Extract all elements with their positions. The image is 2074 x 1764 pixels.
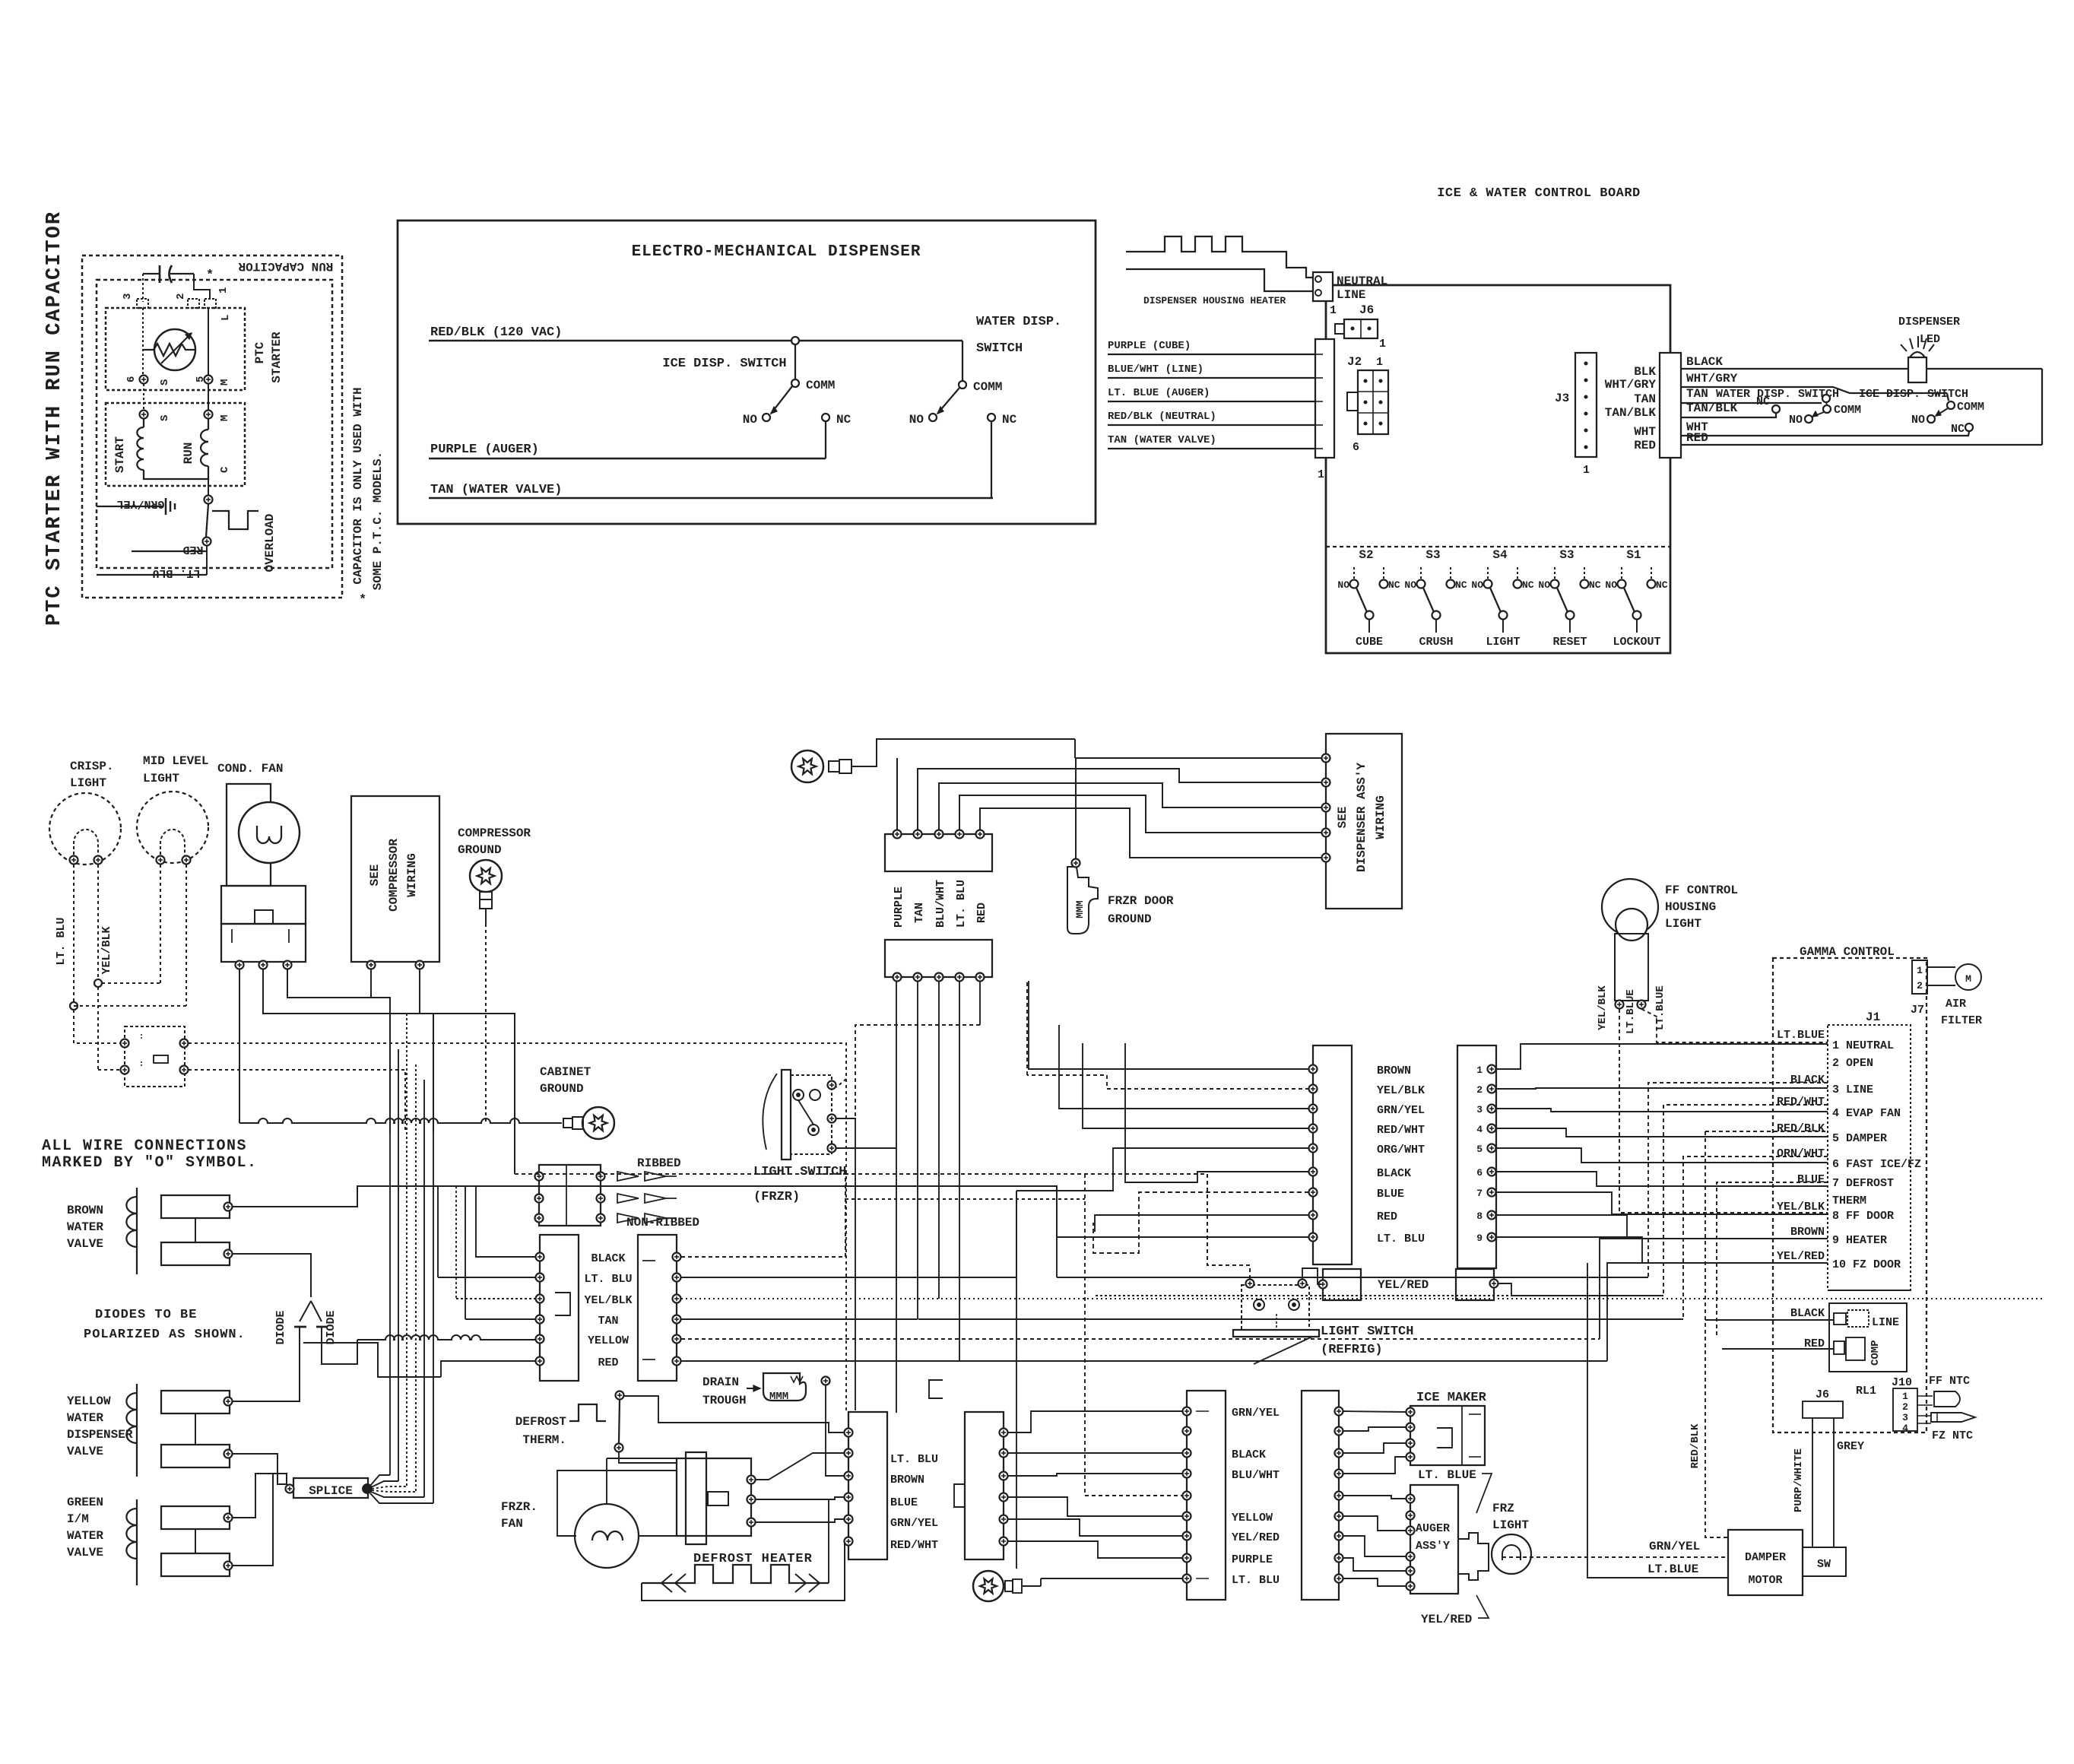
wire defrost therm bottom xyxy=(619,1452,677,1463)
connector pin BLACK xyxy=(536,1253,544,1261)
svg-text:NO: NO xyxy=(1337,579,1349,591)
svg-text:YEL/BLK: YEL/BLK xyxy=(584,1294,632,1307)
wire yel/blk from light xyxy=(1619,1009,1828,1213)
svg-text:COMM: COMM xyxy=(806,379,835,392)
wire refrig switch to yel/red xyxy=(1302,1268,1321,1284)
svg-text:S4: S4 xyxy=(1492,548,1508,562)
svg-text:YEL/RED: YEL/RED xyxy=(1777,1250,1825,1263)
mid level light bulb xyxy=(137,792,208,863)
svg-text:PURPLE: PURPLE xyxy=(1232,1553,1273,1566)
connector C pin BLUE xyxy=(1309,1188,1318,1197)
svg-text:WIRING: WIRING xyxy=(405,853,419,897)
svg-text:NC: NC xyxy=(1656,579,1668,591)
svg-text:LT. BLU: LT. BLU xyxy=(152,566,200,579)
wire LT. BLU xyxy=(97,574,207,576)
svg-text:BROWN: BROWN xyxy=(1790,1226,1825,1239)
svg-text:FF NTC: FF NTC xyxy=(1929,1375,1970,1388)
evap fan terminals xyxy=(747,1476,756,1484)
svg-text:MID LEVEL: MID LEVEL xyxy=(143,754,208,768)
svg-text:PTC STARTER WITH RUN CAPACITOR: PTC STARTER WITH RUN CAPACITOR xyxy=(43,211,66,626)
dispenser assy terminals xyxy=(1322,754,1330,763)
svg-text:RL1: RL1 xyxy=(1856,1385,1876,1398)
svg-text:FAN: FAN xyxy=(501,1517,523,1531)
compressor box terminals xyxy=(367,961,376,969)
svg-text:GREEN: GREEN xyxy=(67,1496,103,1509)
svg-text:NC: NC xyxy=(1951,423,1965,436)
refrigerator light switch xyxy=(1233,1330,1319,1337)
svg-text:NO: NO xyxy=(1404,579,1416,591)
svg-text:SEE: SEE xyxy=(368,865,382,887)
svg-text:MMM: MMM xyxy=(769,1391,788,1403)
svg-text:COMM: COMM xyxy=(973,380,1002,394)
svg-text:POLARIZED AS SHOWN.: POLARIZED AS SHOWN. xyxy=(84,1328,246,1342)
connector C pin LT. BLU xyxy=(1309,1233,1318,1242)
crisp light bulb xyxy=(49,793,121,865)
pin 2 xyxy=(188,299,199,308)
svg-text:LIGHT SWITCH: LIGHT SWITCH xyxy=(1321,1325,1413,1339)
svg-text:LIGHT SWITCH: LIGHT SWITCH xyxy=(753,1165,846,1179)
svg-text:WHT: WHT xyxy=(1686,420,1708,434)
svg-text:GROUND: GROUND xyxy=(540,1082,584,1096)
svg-text:(FRZR): (FRZR) xyxy=(753,1190,800,1204)
wire LT. BLU from connector xyxy=(681,1191,1016,1277)
dispenser wires staircase xyxy=(918,769,1322,830)
svg-text:NO: NO xyxy=(909,413,924,427)
svg-text:ELECTRO-MECHANICAL DISPENSER: ELECTRO-MECHANICAL DISPENSER xyxy=(632,243,921,261)
connector D pin 3 xyxy=(1488,1105,1496,1113)
drain trough heater terminal xyxy=(822,1377,830,1385)
connector D pin 2 xyxy=(1488,1085,1496,1093)
connector C pin RED/WHT xyxy=(1309,1125,1318,1133)
ff light base xyxy=(1615,934,1648,1001)
svg-text:ICE DISP. SWITCH: ICE DISP. SWITCH xyxy=(1859,388,1968,401)
svg-text:COMM: COMM xyxy=(1957,401,1984,414)
svg-text:1 NEUTRAL: 1 NEUTRAL xyxy=(1832,1039,1894,1052)
wire yellow valve lower to splice xyxy=(233,1454,287,1484)
svg-text:M: M xyxy=(219,379,231,385)
svg-text:ASS'Y: ASS'Y xyxy=(1416,1540,1450,1553)
drain trough xyxy=(763,1373,806,1401)
connector C pin BLACK xyxy=(1309,1168,1318,1176)
svg-text:9: 9 xyxy=(1476,1233,1483,1244)
ribbed connector block xyxy=(539,1165,601,1226)
wire defrost therm top xyxy=(623,1396,844,1432)
svg-text:GROUND: GROUND xyxy=(458,843,502,857)
svg-text:TAN/BLK: TAN/BLK xyxy=(1605,406,1657,420)
svg-text:NC: NC xyxy=(1756,395,1770,408)
svg-text:FRZR DOOR: FRZR DOOR xyxy=(1108,894,1174,908)
wire red bus xyxy=(855,1025,980,1118)
svg-text:VALVE: VALVE xyxy=(67,1237,103,1251)
frzr door ground clip xyxy=(1067,867,1098,934)
svg-text:NC: NC xyxy=(1455,579,1467,591)
cond fan motor xyxy=(239,802,300,863)
evap harness connector L xyxy=(848,1412,887,1559)
svg-text:THERM: THERM xyxy=(1832,1195,1866,1207)
svg-text:RED/BLK (NEUTRAL): RED/BLK (NEUTRAL) xyxy=(1108,411,1216,423)
svg-text:BLACK: BLACK xyxy=(1790,1074,1825,1087)
svg-text:LT. BLU: LT. BLU xyxy=(955,880,968,928)
wire lt blue to gamma pin1 xyxy=(1641,1009,1828,1042)
evap connector pin xyxy=(845,1537,853,1546)
yellow water valve xyxy=(136,1384,138,1477)
wire motor C to overload xyxy=(208,479,209,495)
compressor ground lug xyxy=(470,860,502,892)
PTC starter outer dashed box xyxy=(82,255,342,598)
wire RED from connector xyxy=(681,1360,1607,1362)
svg-text:FILTER: FILTER xyxy=(1941,1014,1982,1027)
evap fan shaft xyxy=(708,1492,728,1505)
freezer fan motor xyxy=(575,1504,639,1568)
splice xyxy=(293,1478,368,1498)
svg-text:1: 1 xyxy=(217,287,230,293)
overload bimetal element xyxy=(212,511,258,529)
start winding xyxy=(143,418,144,427)
wire overload to LT. BLU xyxy=(206,546,208,575)
svg-text:J1: J1 xyxy=(1866,1010,1880,1024)
comp plug xyxy=(1834,1341,1844,1354)
svg-text:BROWN: BROWN xyxy=(890,1474,924,1486)
svg-text:6: 6 xyxy=(125,376,138,382)
dispenser connector B xyxy=(885,940,992,977)
svg-text:J2: J2 xyxy=(1347,355,1362,369)
svg-text:BLACK: BLACK xyxy=(1790,1307,1825,1320)
svg-text:LIGHT: LIGHT xyxy=(1492,1518,1529,1532)
harness connector E xyxy=(540,1235,579,1381)
svg-text:3: 3 xyxy=(1902,1412,1908,1423)
svg-text:FF CONTROL: FF CONTROL xyxy=(1665,884,1738,897)
defrost heater element xyxy=(642,1565,829,1583)
wire PTC S to motor S xyxy=(143,384,144,411)
auger assy xyxy=(1410,1485,1458,1594)
svg-text:RED: RED xyxy=(1377,1210,1397,1223)
overload lower terminal xyxy=(203,538,211,546)
wire to lamp socket xyxy=(74,1010,120,1043)
wire pin2 to M terminal xyxy=(208,308,209,376)
svg-text:FZ NTC: FZ NTC xyxy=(1932,1429,1973,1442)
svg-text:RED: RED xyxy=(598,1356,618,1369)
wire crisp left lead LT. BLU xyxy=(73,865,75,1002)
compressor motor box xyxy=(106,403,245,486)
svg-text:NC: NC xyxy=(1388,579,1400,591)
evap connector pin xyxy=(845,1429,853,1437)
connector G/H pin xyxy=(1183,1449,1191,1458)
svg-text:RED: RED xyxy=(182,543,203,556)
wire bundle verticals to splice xyxy=(389,998,391,1475)
svg-text:4: 4 xyxy=(1902,1423,1908,1434)
wire frzr switch bottom xyxy=(836,1147,896,1149)
svg-text:3 LINE: 3 LINE xyxy=(1832,1083,1873,1096)
motor terminal M xyxy=(205,411,213,419)
connector C pin BROWN xyxy=(1309,1065,1318,1074)
svg-text:NO: NO xyxy=(1471,579,1483,591)
wire purple pin drop xyxy=(896,758,898,830)
svg-text:LT. BLUE: LT. BLUE xyxy=(1418,1468,1476,1482)
freezer light xyxy=(1458,1533,1489,1580)
overload protector terminal xyxy=(205,496,213,504)
svg-text:DAMPER: DAMPER xyxy=(1745,1551,1786,1564)
connector D pin 8 xyxy=(1488,1211,1496,1220)
wires H to auger xyxy=(1343,1496,1406,1499)
wire brown valve lower to diodes xyxy=(233,1254,311,1297)
svg-text:VALVE: VALVE xyxy=(67,1445,103,1458)
svg-text:6 FAST ICE/FZ: 6 FAST ICE/FZ xyxy=(1832,1158,1921,1171)
svg-text:COMP: COMP xyxy=(1869,1340,1882,1366)
wire pin3 to S terminal xyxy=(142,308,144,376)
harness connector C xyxy=(1313,1045,1352,1264)
harness D to gamma J1 rows xyxy=(1496,1044,1828,1069)
svg-text:LIGHT: LIGHT xyxy=(143,772,179,785)
wire compressor to bundle xyxy=(371,998,390,1133)
svg-text:OVERLOAD: OVERLOAD xyxy=(263,514,277,573)
svg-text:GRN/YEL: GRN/YEL xyxy=(1232,1407,1280,1420)
svg-text:RUN: RUN xyxy=(182,443,195,465)
svg-text:TROUGH: TROUGH xyxy=(702,1394,747,1407)
connector G/H pin xyxy=(1183,1512,1191,1521)
svg-text:J3: J3 xyxy=(1555,392,1569,405)
connector G/H pin xyxy=(1183,1427,1191,1436)
svg-text:NO: NO xyxy=(1911,414,1925,427)
svg-text:VALVE: VALVE xyxy=(67,1546,103,1559)
svg-text:SPLICE: SPLICE xyxy=(309,1484,353,1498)
svg-text:DISPENSER ASS'Y: DISPENSER ASS'Y xyxy=(1355,763,1368,872)
wire green valve lower xyxy=(233,1474,273,1566)
svg-text:8: 8 xyxy=(1476,1210,1483,1222)
wires J6 to SW xyxy=(1812,1418,1813,1547)
ground GRN/YEL xyxy=(97,506,163,507)
wire yellow valve top xyxy=(233,1401,300,1402)
svg-text:FRZ: FRZ xyxy=(1492,1502,1514,1515)
PTC resistor R1 xyxy=(154,329,195,370)
svg-text:SEE: SEE xyxy=(1336,807,1349,829)
svg-text:DRAIN: DRAIN xyxy=(702,1375,739,1389)
svg-text:BLACK: BLACK xyxy=(1686,355,1723,369)
harness connector D xyxy=(1457,1045,1496,1268)
svg-text:AIR: AIR xyxy=(1946,998,1966,1010)
wire socket bus lower vertical xyxy=(845,1079,847,1410)
connector G/H pin xyxy=(1183,1575,1191,1583)
svg-text:CABINET: CABINET xyxy=(540,1065,591,1079)
svg-text:BROWN: BROWN xyxy=(67,1204,103,1217)
svg-text:SW: SW xyxy=(1817,1558,1831,1571)
right loop edge xyxy=(2041,369,2043,445)
connector C pin RED xyxy=(1309,1211,1318,1220)
svg-text:2: 2 xyxy=(1917,980,1923,991)
damper motor xyxy=(1728,1530,1803,1595)
connector pin YELLOW xyxy=(536,1335,544,1344)
svg-text:YEL/RED: YEL/RED xyxy=(1378,1278,1429,1292)
svg-text:ORG/WHT: ORG/WHT xyxy=(1377,1144,1425,1156)
svg-text:LT. BLUE (AUGER): LT. BLUE (AUGER) xyxy=(1108,387,1210,399)
neutral/line connector xyxy=(1313,272,1333,301)
svg-text:3: 3 xyxy=(122,293,134,300)
cabinet harness connector G xyxy=(1187,1391,1226,1600)
svg-text:(REFRIG): (REFRIG) xyxy=(1321,1343,1383,1357)
svg-text:BLU/WHT: BLU/WHT xyxy=(934,880,947,928)
svg-text:MMM: MMM xyxy=(1074,900,1086,918)
svg-text:GROUND: GROUND xyxy=(1108,912,1152,926)
svg-text:ORN/WHT: ORN/WHT xyxy=(1777,1147,1825,1160)
wire splice bundle to connector E xyxy=(476,1186,535,1257)
svg-text:LIGHT: LIGHT xyxy=(70,776,106,790)
svg-text:GREY: GREY xyxy=(1837,1440,1864,1453)
svg-text:1: 1 xyxy=(1376,356,1383,369)
svg-text:GRN/YEL: GRN/YEL xyxy=(1649,1540,1700,1553)
electro-mechanical dispenser box xyxy=(398,220,1096,524)
svg-text:J10: J10 xyxy=(1892,1376,1912,1389)
cond fan terminals xyxy=(236,961,244,969)
board output connector xyxy=(1660,353,1681,458)
svg-text:ICE & WATER CONTROL BOARD: ICE & WATER CONTROL BOARD xyxy=(1437,186,1641,201)
wires into connector C xyxy=(1029,981,1309,1069)
svg-text:YEL/BLK: YEL/BLK xyxy=(1777,1201,1825,1214)
cabinet ground lug xyxy=(563,1118,572,1128)
lamp socket interlock xyxy=(125,1026,185,1087)
svg-text:COMM: COMM xyxy=(1834,404,1861,417)
svg-text:S: S xyxy=(159,379,171,385)
svg-text:GRN/YEL: GRN/YEL xyxy=(890,1517,938,1530)
svg-text:ALL WIRE CONNECTIONS: ALL WIRE CONNECTIONS xyxy=(42,1137,247,1155)
svg-text:2: 2 xyxy=(1476,1084,1483,1096)
svg-text:BLACK: BLACK xyxy=(1232,1448,1266,1461)
svg-text:LT.BLUE: LT.BLUE xyxy=(1625,989,1637,1034)
svg-text:LT.BLUE: LT.BLUE xyxy=(1647,1563,1698,1576)
svg-text:ICE DISP. SWITCH: ICE DISP. SWITCH xyxy=(662,357,786,371)
evap connector pin xyxy=(845,1493,853,1502)
svg-text:WATER: WATER xyxy=(67,1529,103,1543)
svg-text:LT.BLUE: LT.BLUE xyxy=(1777,1029,1825,1042)
svg-text:WATER DISP.: WATER DISP. xyxy=(976,315,1061,329)
connector J1 board-left xyxy=(1315,339,1334,458)
svg-text:NC: NC xyxy=(1002,413,1017,427)
svg-text:RED/BLK (120 VAC): RED/BLK (120 VAC) xyxy=(430,325,562,340)
svg-text:NC: NC xyxy=(1522,579,1534,591)
svg-text:LIGHT: LIGHT xyxy=(1486,636,1520,649)
dispenser connector A xyxy=(885,834,992,871)
svg-text:6: 6 xyxy=(1353,441,1359,454)
svg-text:2: 2 xyxy=(1902,1401,1908,1413)
terminal 5/M on PTC box xyxy=(205,376,213,384)
svg-text:BLUE: BLUE xyxy=(890,1496,918,1509)
ground bus to cabinet ground xyxy=(239,1118,562,1123)
wire RED xyxy=(132,550,207,552)
wire bus to connector G upper xyxy=(845,1198,1085,1200)
svg-text:NC: NC xyxy=(1589,579,1601,591)
svg-text:YEL/BLK: YEL/BLK xyxy=(100,926,113,974)
svg-text:DEFROST: DEFROST xyxy=(515,1415,567,1429)
yel/red connector half A xyxy=(1323,1269,1361,1300)
svg-text:PURPLE: PURPLE xyxy=(893,887,905,928)
svg-text:LT. BLU: LT. BLU xyxy=(890,1453,938,1466)
wires H to ice maker xyxy=(1343,1411,1406,1412)
svg-text:J6: J6 xyxy=(1359,303,1374,317)
svg-text:COND. FAN: COND. FAN xyxy=(217,762,283,776)
svg-text:NEUTRAL: NEUTRAL xyxy=(1337,274,1387,288)
wire water NC to tan xyxy=(991,421,992,498)
svg-text:M: M xyxy=(1965,973,1971,985)
svg-text:M: M xyxy=(219,415,231,421)
air filter motor xyxy=(1955,964,1981,990)
connector C pin ORG/WHT xyxy=(1309,1144,1318,1153)
wire BLACK from connector to refrig switch xyxy=(681,1174,1250,1280)
svg-text:S: S xyxy=(159,415,171,421)
svg-text:9 HEATER: 9 HEATER xyxy=(1832,1234,1887,1247)
svg-text:RIBBED: RIBBED xyxy=(637,1156,681,1170)
svg-text:PURP/WHITE: PURP/WHITE xyxy=(1793,1448,1805,1512)
svg-text:NO: NO xyxy=(1789,414,1803,427)
wire socket to freezer light switch xyxy=(189,1043,846,1087)
svg-text:GRN/YEL: GRN/YEL xyxy=(116,497,164,510)
svg-text:YELLOW: YELLOW xyxy=(1232,1512,1273,1524)
svg-text:PTC: PTC xyxy=(253,341,267,363)
svg-text:L: L xyxy=(220,315,232,321)
svg-text:TAN: TAN xyxy=(1686,387,1708,401)
wire cond fan 1 to ground bus xyxy=(239,969,240,1123)
connector pin RED xyxy=(536,1357,544,1366)
svg-text:GRN/YEL: GRN/YEL xyxy=(1377,1104,1425,1117)
wire YEL/BLK from connector xyxy=(681,1298,2045,1299)
terminal 6/S on PTC box xyxy=(140,376,148,384)
defrost heater leads xyxy=(642,1541,848,1601)
svg-text:GAMMA CONTROL: GAMMA CONTROL xyxy=(1800,945,1895,959)
svg-text:2 OPEN: 2 OPEN xyxy=(1832,1057,1873,1070)
svg-text:RED/WHT: RED/WHT xyxy=(890,1539,938,1552)
wire NC to purple xyxy=(825,421,826,458)
wire seal terminal row 2 xyxy=(535,1195,544,1203)
svg-text:DISPENSER HOUSING HEATER: DISPENSER HOUSING HEATER xyxy=(1143,295,1286,306)
wire compressor run to harness xyxy=(420,1014,515,1174)
wire frzr switch mid xyxy=(836,1118,855,1410)
wire fan motor left xyxy=(557,1471,677,1536)
svg-text:THERM.: THERM. xyxy=(522,1433,566,1447)
connector J7 xyxy=(1912,960,1927,994)
bus returns to left xyxy=(1057,1277,1648,1278)
svg-text:LED: LED xyxy=(1920,333,1940,346)
harness connector F xyxy=(638,1235,677,1381)
svg-text:5: 5 xyxy=(1476,1144,1483,1155)
diode D1 branch wire xyxy=(303,1343,441,1377)
svg-text:WHT/GRY: WHT/GRY xyxy=(1686,372,1738,385)
svg-text:RED/BLK: RED/BLK xyxy=(1777,1122,1825,1135)
svg-text:LT. BLU: LT. BLU xyxy=(1377,1233,1425,1245)
pin 3 xyxy=(137,299,148,308)
svg-text:YELLOW: YELLOW xyxy=(588,1334,629,1347)
wire PTC M to motor M xyxy=(208,384,209,411)
svg-text:TAN/BLK: TAN/BLK xyxy=(1686,401,1738,415)
svg-text:*: * xyxy=(359,593,366,608)
svg-text:DISPENSER: DISPENSER xyxy=(1898,316,1960,328)
svg-text:WIRING: WIRING xyxy=(1374,795,1387,839)
connector C pin GRN/YEL xyxy=(1309,1105,1318,1113)
svg-text:1: 1 xyxy=(1902,1391,1908,1402)
wire seal terminal row 3 xyxy=(535,1214,544,1223)
svg-text:SOME P.T.C. MODELS.: SOME P.T.C. MODELS. xyxy=(371,452,385,590)
overload switch blade xyxy=(206,504,208,537)
svg-text:NO: NO xyxy=(1605,579,1617,591)
svg-text:3: 3 xyxy=(1476,1104,1483,1115)
run winding xyxy=(208,418,209,430)
svg-text:BLU/WHT: BLU/WHT xyxy=(1232,1469,1280,1482)
svg-text:PURPLE (CUBE): PURPLE (CUBE) xyxy=(1108,340,1191,352)
svg-text:TAN (WATER VALVE): TAN (WATER VALVE) xyxy=(1108,434,1216,446)
pin 1 xyxy=(205,299,216,308)
svg-text:TAN: TAN xyxy=(598,1315,618,1328)
svg-text:PURPLE (AUGER): PURPLE (AUGER) xyxy=(430,443,539,457)
svg-text:DIODE: DIODE xyxy=(274,1310,287,1344)
svg-text:5 DAMPER: 5 DAMPER xyxy=(1832,1132,1887,1145)
wire brown valve to harness xyxy=(233,1186,1057,1237)
yel/red connector half B xyxy=(1456,1269,1494,1300)
